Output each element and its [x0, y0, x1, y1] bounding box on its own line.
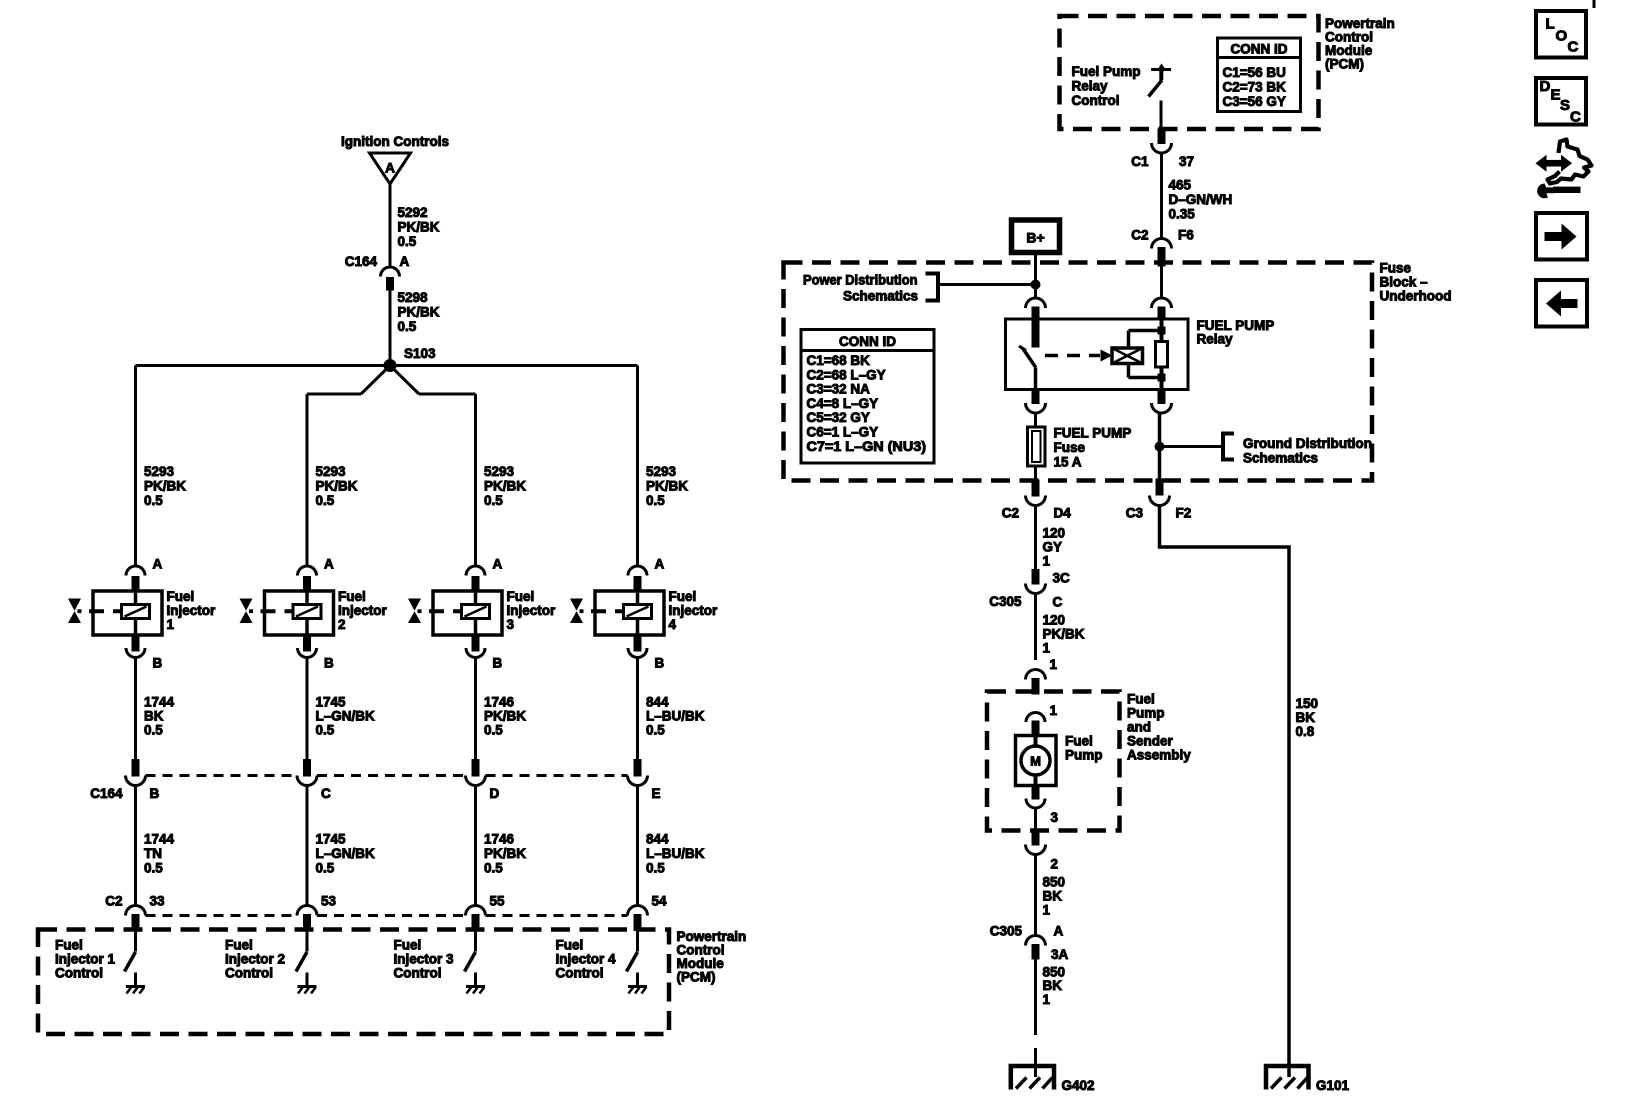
connector C2 pin 33 — [126, 894, 166, 931]
svg-text:S: S — [1560, 97, 1570, 114]
svg-text:Control: Control — [394, 966, 442, 981]
svg-text:B: B — [324, 656, 334, 671]
svg-text:844: 844 — [646, 832, 669, 847]
svg-text:0.5: 0.5 — [144, 493, 163, 508]
service/repair icon (hood outline, arrows, wrench) — [1536, 140, 1592, 199]
relay switch blade — [1019, 320, 1039, 390]
svg-text:Control: Control — [55, 966, 103, 981]
svg-text:0.5: 0.5 — [484, 723, 503, 738]
svg-text:33: 33 — [150, 894, 166, 909]
connector pin B of fuel injector 4 — [628, 635, 665, 671]
junction: B+ / power distribution tap — [1031, 280, 1040, 289]
connector C164 pin B — [126, 760, 160, 802]
svg-text:CONN ID: CONN ID — [1231, 42, 1288, 57]
svg-text:Injector: Injector — [167, 603, 217, 618]
svg-text:1: 1 — [1043, 641, 1051, 656]
svg-text:Relay: Relay — [1197, 332, 1234, 347]
svg-text:(PCM): (PCM) — [1325, 57, 1364, 72]
svg-text:M: M — [1030, 754, 1041, 769]
connector C1 pin 37 — [1131, 129, 1194, 169]
svg-text:0.5: 0.5 — [484, 861, 503, 876]
svg-text:G402: G402 — [1062, 1078, 1095, 1093]
ground (PCM internal, injector 3) — [466, 987, 485, 994]
svg-text:0.5: 0.5 — [398, 234, 417, 249]
svg-text:0.5: 0.5 — [646, 493, 665, 508]
svg-text:Fuse: Fuse — [1380, 261, 1412, 276]
svg-text:1744: 1744 — [144, 832, 175, 847]
svg-text:Control: Control — [556, 966, 604, 981]
svg-text:B+: B+ — [1026, 230, 1044, 246]
svg-text:1746: 1746 — [484, 832, 515, 847]
relay coil linkage (dashed) — [1045, 350, 1113, 362]
svg-text:0.5: 0.5 — [316, 861, 335, 876]
svg-text:Ignition Controls: Ignition Controls — [341, 134, 449, 149]
svg-text:PK/BK: PK/BK — [484, 479, 526, 494]
svg-text:1: 1 — [1050, 703, 1058, 718]
svg-text:C: C — [1053, 595, 1063, 610]
svg-text:A: A — [153, 557, 163, 572]
label: Powertrain Control Module (PCM), top right — [1325, 16, 1395, 72]
connector C164 pin C — [297, 760, 331, 802]
wire 1746 PK/BK 0.5 — [476, 658, 527, 760]
svg-text:C3=32 NA: C3=32 NA — [807, 382, 871, 397]
svg-text:PK/BK: PK/BK — [484, 709, 526, 724]
Fuel Pump and Sender Assembly box — [987, 692, 1120, 831]
svg-text:54: 54 — [652, 894, 668, 909]
svg-text:C1=68 BK: C1=68 BK — [807, 353, 871, 368]
svg-text:0.5: 0.5 — [144, 723, 163, 738]
svg-text:(PCM): (PCM) — [677, 970, 716, 985]
connector: relay feed terminal (right) — [1152, 390, 1172, 414]
svg-text:C4=8 L–GY: C4=8 L–GY — [807, 396, 879, 411]
svg-text:Control: Control — [1072, 93, 1120, 108]
fuel injector 3 — [408, 589, 556, 635]
svg-text:Injector 1: Injector 1 — [55, 952, 116, 967]
svg-text:BK: BK — [144, 709, 164, 724]
svg-text:15 A: 15 A — [1054, 455, 1082, 470]
svg-text:C164: C164 — [345, 254, 378, 269]
svg-text:Pump: Pump — [1065, 748, 1103, 763]
svg-text:1746: 1746 — [484, 695, 515, 710]
svg-text:Injector: Injector — [507, 603, 557, 618]
wire 844 L–BU/BK 0.5 — [638, 786, 705, 906]
svg-text:Fuel: Fuel — [225, 938, 253, 953]
svg-text:Power Distribution: Power Distribution — [803, 273, 918, 288]
svg-text:Fuel: Fuel — [1127, 692, 1155, 707]
connector pin B of fuel injector 2 — [298, 635, 335, 671]
connector C2 pin 54 — [628, 894, 668, 931]
svg-text:0.5: 0.5 — [144, 861, 163, 876]
label: Powertrain Control Module (PCM) — [677, 929, 747, 985]
svg-text:BK: BK — [1043, 978, 1063, 993]
svg-text:Fuel: Fuel — [507, 589, 535, 604]
svg-text:Injector 4: Injector 4 — [556, 952, 617, 967]
ground (PCM internal, injector 1) — [126, 987, 145, 994]
svg-text:0.5: 0.5 — [484, 493, 503, 508]
svg-text:0.5: 0.5 — [646, 861, 665, 876]
CONN ID table (PCM) — [1218, 38, 1301, 112]
svg-text:C164: C164 — [90, 786, 123, 801]
svg-text:PK/BK: PK/BK — [316, 479, 358, 494]
svg-text:TN: TN — [144, 846, 162, 861]
page top tick mark — [1593, 0, 1596, 8]
svg-text:3: 3 — [507, 617, 515, 632]
svg-text:Relay: Relay — [1072, 79, 1109, 94]
wire 850 BK 1 (lower, to G402) — [1036, 959, 1066, 1077]
svg-text:L–BU/BK: L–BU/BK — [646, 846, 705, 861]
svg-text:O: O — [1556, 28, 1568, 45]
svg-text:844: 844 — [646, 695, 669, 710]
svg-text:Schematics: Schematics — [843, 289, 918, 304]
svg-text:850: 850 — [1043, 875, 1066, 890]
svg-text:120: 120 — [1043, 526, 1066, 541]
connector: relay output terminal (left, to fuse) — [1026, 390, 1046, 414]
label: Fuse Block - Underhood — [1380, 261, 1452, 304]
svg-text:A: A — [655, 557, 665, 572]
svg-text:37: 37 — [1179, 154, 1194, 169]
label: Power Distribution Schematics callout — [803, 273, 1036, 304]
svg-text:5293: 5293 — [646, 464, 677, 479]
PCM driver switch for injector 1 — [125, 931, 136, 987]
svg-text:C1: C1 — [1131, 154, 1149, 169]
svg-text:1745: 1745 — [316, 832, 347, 847]
svg-text:Injector: Injector — [338, 603, 388, 618]
B+ battery feed node — [1012, 220, 1060, 253]
connector C164 pin D — [466, 760, 500, 802]
connector pin 3 (inside assembly) — [1026, 786, 1059, 832]
connector pin A of fuel injector 1 — [126, 557, 163, 592]
svg-text:0.8: 0.8 — [1296, 724, 1315, 739]
connector: relay coil-side terminal (left) — [1026, 298, 1046, 320]
svg-text:and: and — [1127, 720, 1151, 735]
svg-text:A: A — [324, 557, 334, 572]
svg-text:BK: BK — [1043, 889, 1063, 904]
wire 5293 PK/BK 0.5 (injector 2 feed) — [316, 464, 358, 508]
Fuel Pump Relay Control driver switch — [1072, 64, 1172, 130]
connector C2 pin 53 — [297, 894, 337, 931]
svg-text:Sender: Sender — [1127, 734, 1174, 749]
Powertrain Control Module (PCM) box, top right — [1060, 16, 1319, 129]
svg-text:A: A — [1054, 924, 1064, 939]
svg-text:0.35: 0.35 — [1169, 207, 1196, 222]
connector pin 2 (below assembly) — [1026, 832, 1059, 872]
relay coil (winding) — [1112, 348, 1143, 364]
svg-text:E: E — [1551, 87, 1561, 104]
connector: relay switch-side terminal (right) — [1152, 266, 1172, 320]
wire 5293 PK/BK 0.5 (injector 3 feed) — [484, 464, 526, 508]
connector pin A of fuel injector 3 — [466, 557, 503, 592]
svg-text:Fuel: Fuel — [338, 589, 366, 604]
svg-text:C305: C305 — [990, 924, 1023, 939]
svg-text:C2: C2 — [105, 894, 122, 909]
node A: Ignition Controls source triangle — [341, 134, 449, 184]
wire 465 D-GN/WH 0.35 — [1162, 153, 1233, 239]
svg-text:5292: 5292 — [398, 205, 428, 220]
FUEL PUMP Relay — [1006, 318, 1275, 390]
relay internal circuit: right through-path — [1129, 320, 1162, 390]
svg-text:C2=68 L–GY: C2=68 L–GY — [807, 367, 886, 382]
Fuse Block - Underhood box — [784, 263, 1373, 481]
svg-text:Underhood: Underhood — [1380, 289, 1452, 304]
junction: ground distribution tap — [1155, 442, 1164, 451]
connector pin B of fuel injector 1 — [126, 635, 163, 671]
svg-text:C: C — [1570, 109, 1581, 126]
svg-text:A: A — [493, 557, 503, 572]
svg-text:Pump: Pump — [1127, 706, 1165, 721]
wire 1745 L–GN/BK 0.5 — [307, 658, 375, 760]
PCM driver switch for injector 4 — [627, 931, 638, 987]
wire 1744 TN 0.5 — [136, 786, 175, 906]
svg-text:C305: C305 — [989, 594, 1022, 609]
wire 150 BK 0.8 (C3 F2 to G101) — [1160, 505, 1319, 1077]
svg-text:F2: F2 — [1176, 506, 1192, 521]
svg-text:Ground Distribution: Ground Distribution — [1243, 436, 1372, 451]
svg-text:G101: G101 — [1316, 1078, 1350, 1093]
svg-text:D: D — [1540, 78, 1551, 95]
wire 120 PK/BK 1 — [1036, 593, 1085, 660]
wire 5293 PK/BK 0.5 (injector 1 feed) — [144, 464, 186, 508]
svg-text:Fuel Pump: Fuel Pump — [1072, 64, 1141, 79]
svg-text:2: 2 — [338, 617, 346, 632]
svg-text:F6: F6 — [1178, 228, 1194, 243]
relay suppression resistor — [1156, 342, 1168, 368]
splice S103 junction — [384, 346, 436, 372]
svg-text:Fuel: Fuel — [556, 938, 584, 953]
fuel injector 2 — [240, 589, 388, 635]
connector pin 1 (inside assembly) — [1026, 703, 1058, 736]
LOC button — [1536, 11, 1586, 58]
svg-text:L–BU/BK: L–BU/BK — [646, 709, 705, 724]
svg-text:L–GN/BK: L–GN/BK — [316, 846, 376, 861]
svg-text:1: 1 — [1043, 992, 1051, 1007]
svg-text:PK/BK: PK/BK — [398, 220, 440, 235]
svg-text:L: L — [1546, 16, 1555, 33]
svg-text:PK/BK: PK/BK — [646, 479, 688, 494]
wire 120 GY 1 — [1036, 505, 1066, 570]
svg-text:120: 120 — [1043, 613, 1066, 628]
Powertrain Control Module (PCM) box, bottom left — [38, 930, 669, 1035]
svg-text:C2=73 BK: C2=73 BK — [1223, 80, 1287, 95]
wire: C2 harness dashed tie-line — [146, 914, 628, 917]
svg-text:Assembly: Assembly — [1127, 748, 1191, 763]
PCM driver switch for injector 3 — [465, 931, 476, 987]
connector C164 pin A — [345, 254, 410, 290]
ground (PCM internal, injector 4) — [628, 987, 647, 994]
svg-text:Injector: Injector — [669, 603, 719, 618]
connector C305 pin 3C / C — [989, 570, 1070, 610]
DESC button — [1536, 78, 1586, 126]
wire 850 BK 1 (upper) — [1036, 854, 1066, 936]
svg-text:A: A — [400, 254, 410, 269]
junction: relay coil top — [1158, 327, 1165, 334]
svg-text:0.5: 0.5 — [316, 493, 335, 508]
svg-text:3C: 3C — [1053, 571, 1071, 586]
ground (PCM internal, injector 2) — [298, 987, 317, 994]
ground G402 — [1011, 1066, 1095, 1093]
wire 1746 PK/BK 0.5 — [476, 786, 527, 906]
svg-text:2: 2 — [1051, 857, 1059, 872]
wire 5293 PK/BK 0.5 (injector 4 feed) — [646, 464, 688, 508]
svg-text:C5=32 GY: C5=32 GY — [807, 410, 870, 425]
svg-text:D: D — [490, 786, 500, 801]
svg-text:150: 150 — [1296, 696, 1319, 711]
svg-text:Fuel: Fuel — [167, 589, 195, 604]
svg-text:C1=56 BU: C1=56 BU — [1223, 65, 1286, 80]
svg-text:PK/BK: PK/BK — [398, 305, 440, 320]
wire 5298 PK/BK 0.5 — [390, 290, 440, 366]
svg-text:PK/BK: PK/BK — [144, 479, 186, 494]
svg-text:B: B — [150, 786, 160, 801]
svg-text:C: C — [1568, 39, 1579, 56]
svg-text:0.5: 0.5 — [646, 723, 665, 738]
wire: B+ feed into fuse block — [1034, 253, 1037, 299]
svg-text:B: B — [655, 656, 665, 671]
junction: relay coil bottom — [1158, 374, 1165, 381]
svg-text:A: A — [385, 161, 395, 176]
svg-text:Fuel: Fuel — [55, 938, 83, 953]
FUEL PUMP Fuse 15 A — [1028, 413, 1132, 482]
svg-text:Fuel: Fuel — [669, 589, 697, 604]
fuel injector 4 — [570, 589, 718, 635]
svg-text:1: 1 — [167, 617, 175, 632]
ground G101 — [1266, 1066, 1350, 1093]
wire 844 L–BU/BK 0.5 — [638, 658, 705, 760]
svg-text:C2: C2 — [1131, 228, 1148, 243]
connector C305 pin A / 3A — [990, 924, 1069, 963]
svg-text:5293: 5293 — [484, 464, 515, 479]
svg-text:53: 53 — [321, 894, 337, 909]
svg-text:E: E — [652, 786, 661, 801]
svg-text:C: C — [321, 786, 331, 801]
svg-text:0.5: 0.5 — [398, 319, 417, 334]
svg-text:3A: 3A — [1051, 947, 1069, 962]
fuel pump motor M1 — [1016, 734, 1103, 786]
label: Fuel Pump and Sender Assembly — [1127, 692, 1191, 763]
svg-text:Fuel: Fuel — [1065, 734, 1093, 749]
svg-text:5293: 5293 — [316, 464, 347, 479]
connector C2 pin D4 — [1002, 480, 1072, 521]
connector pin 1 (fuel pump assembly, outside) — [1026, 657, 1058, 694]
svg-text:1745: 1745 — [316, 695, 347, 710]
svg-text:3: 3 — [1051, 810, 1059, 825]
svg-text:0.5: 0.5 — [316, 723, 335, 738]
connector C3 pin F2 — [1126, 479, 1192, 521]
label: Ground Distribution Schematics callout — [1160, 434, 1373, 466]
svg-text:Injector 2: Injector 2 — [225, 952, 285, 967]
svg-text:1744: 1744 — [144, 695, 175, 710]
svg-text:5293: 5293 — [144, 464, 175, 479]
svg-text:FUEL PUMP: FUEL PUMP — [1054, 426, 1132, 441]
svg-text:PK/BK: PK/BK — [1043, 627, 1085, 642]
svg-text:Fuel: Fuel — [394, 938, 422, 953]
forward arrow button — [1536, 213, 1587, 260]
svg-text:D4: D4 — [1054, 506, 1072, 521]
connector C164 pin E — [628, 760, 661, 802]
connector pin A of fuel injector 2 — [298, 557, 335, 592]
svg-text:C3: C3 — [1126, 506, 1144, 521]
svg-text:PK/BK: PK/BK — [484, 846, 526, 861]
wire: C164 harness dashed tie-line — [146, 774, 628, 777]
wire 5292 PK/BK 0.5 — [390, 184, 440, 267]
svg-text:Block –: Block – — [1380, 275, 1429, 290]
connector pin B of fuel injector 3 — [466, 635, 503, 671]
svg-text:L–GN/BK: L–GN/BK — [316, 709, 376, 724]
PCM driver switch for injector 2 — [296, 931, 307, 987]
svg-text:C7=1 L–GN (NU3): C7=1 L–GN (NU3) — [807, 439, 927, 454]
wire 1744 BK 0.5 — [136, 658, 175, 760]
connector pin A of fuel injector 4 — [628, 557, 665, 592]
fuel injector 1 — [68, 589, 216, 635]
svg-text:Injector 3: Injector 3 — [394, 952, 455, 967]
svg-text:1: 1 — [1050, 657, 1058, 672]
svg-text:Schematics: Schematics — [1243, 451, 1318, 466]
svg-text:1: 1 — [1043, 903, 1051, 918]
svg-text:Fuse: Fuse — [1054, 440, 1086, 455]
svg-text:4: 4 — [669, 617, 677, 632]
svg-text:B: B — [493, 656, 503, 671]
back arrow button — [1536, 280, 1587, 327]
wire: S103 branch bus — [136, 366, 638, 566]
svg-text:B: B — [153, 656, 163, 671]
svg-text:5298: 5298 — [398, 290, 429, 305]
connector C2 pin F6 — [1131, 228, 1194, 267]
svg-text:C6=1 L–GY: C6=1 L–GY — [807, 425, 879, 440]
connector C2 pin 55 — [466, 894, 506, 931]
svg-text:Control: Control — [225, 966, 273, 981]
CONN ID table (fuse block) — [801, 330, 934, 464]
svg-text:C3=56 GY: C3=56 GY — [1223, 94, 1286, 109]
wire 1745 L–GN/BK 0.5 — [307, 786, 375, 906]
svg-text:GY: GY — [1043, 540, 1063, 555]
svg-text:465: 465 — [1169, 178, 1192, 193]
svg-text:1: 1 — [1043, 554, 1051, 569]
svg-text:C2: C2 — [1002, 506, 1019, 521]
svg-text:BK: BK — [1296, 710, 1316, 725]
wire: relay to ground-distribution tap — [1158, 413, 1162, 480]
svg-text:D–GN/WH: D–GN/WH — [1169, 192, 1233, 207]
svg-text:S103: S103 — [404, 346, 436, 361]
svg-text:55: 55 — [490, 894, 506, 909]
svg-text:CONN ID: CONN ID — [839, 334, 896, 349]
